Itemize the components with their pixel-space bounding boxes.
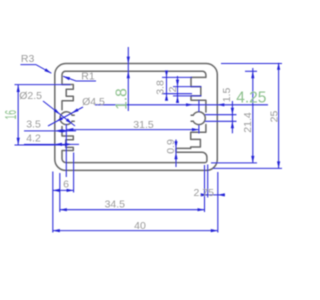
- svg-text:6: 6: [63, 179, 69, 191]
- svg-text:Ø2.5: Ø2.5: [19, 90, 42, 102]
- svg-text:0.9: 0.9: [165, 139, 177, 154]
- svg-text:21.4: 21.4: [242, 112, 254, 133]
- svg-text:R1: R1: [81, 71, 95, 83]
- svg-text:31.5: 31.5: [133, 119, 154, 131]
- svg-text:Ø4.5: Ø4.5: [82, 96, 105, 108]
- svg-text:2: 2: [167, 86, 179, 92]
- svg-text:16: 16: [3, 110, 20, 120]
- svg-text:4.25: 4.25: [236, 89, 266, 106]
- svg-text:40: 40: [134, 220, 146, 232]
- svg-text:4.2: 4.2: [26, 133, 41, 145]
- svg-text:1.8: 1.8: [113, 88, 130, 110]
- svg-text:25: 25: [268, 111, 280, 123]
- svg-text:2.75: 2.75: [193, 187, 214, 199]
- svg-text:34.5: 34.5: [105, 199, 126, 211]
- svg-text:1.5: 1.5: [221, 88, 233, 103]
- svg-text:3.8: 3.8: [155, 80, 167, 95]
- svg-text:3.5: 3.5: [26, 119, 41, 131]
- svg-text:R3: R3: [21, 53, 35, 65]
